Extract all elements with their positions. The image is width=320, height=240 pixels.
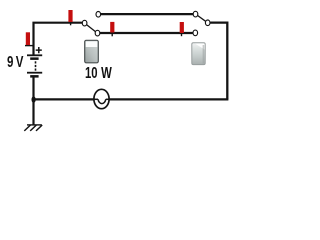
current indicator tick on battery top wire bbox=[70, 22, 72, 26]
switch SW2 common terminal bbox=[205, 20, 210, 26]
current indicator tick on second wire right bbox=[181, 32, 183, 36]
battery B1 long plate 1 bbox=[27, 54, 42, 56]
battery B1 plus sign bbox=[36, 47, 42, 53]
wire: right switch common to right rail bbox=[210, 22, 227, 24]
switch SW2 bottom throw terminal bbox=[193, 30, 198, 36]
switch SW1 lever bbox=[85, 23, 98, 33]
wire: battery positive to left switch common bbox=[34, 23, 83, 55]
ground symbol bbox=[27, 124, 42, 126]
battery B1 short plate 1 bbox=[30, 57, 38, 60]
wire: battery negative down to junction and earth bbox=[32, 78, 34, 125]
label 10 W bbox=[85, 66, 112, 82]
battery B1 short plate 2 bbox=[30, 75, 38, 78]
switch SW1 common terminal bbox=[82, 20, 87, 26]
wire: second wire between switch throws bbox=[100, 32, 193, 34]
lamp picture icon right bbox=[192, 43, 205, 65]
label 9 V bbox=[7, 55, 23, 71]
wire: bottom return wire bbox=[34, 98, 229, 100]
current indicator tick on second wire left bbox=[111, 32, 113, 36]
wire: right vertical rail bbox=[226, 22, 228, 100]
lamp L1 symbol on bottom wire bbox=[94, 89, 109, 108]
wire: top wire between switch throws bbox=[101, 13, 193, 15]
battery B1 long plate 2 bbox=[27, 72, 42, 74]
switch SW2 lever bbox=[196, 14, 208, 23]
lamp picture icon left bbox=[85, 40, 99, 63]
junction node at battery bottom bbox=[31, 96, 35, 103]
current indicator tick on battery left wire bbox=[25, 45, 34, 47]
battery B1 cell dashes bbox=[35, 61, 37, 63]
switch SW2 top throw terminal bbox=[193, 11, 198, 17]
switch SW1 bottom throw terminal bbox=[95, 30, 100, 36]
switch SW1 top throw terminal bbox=[96, 12, 101, 18]
